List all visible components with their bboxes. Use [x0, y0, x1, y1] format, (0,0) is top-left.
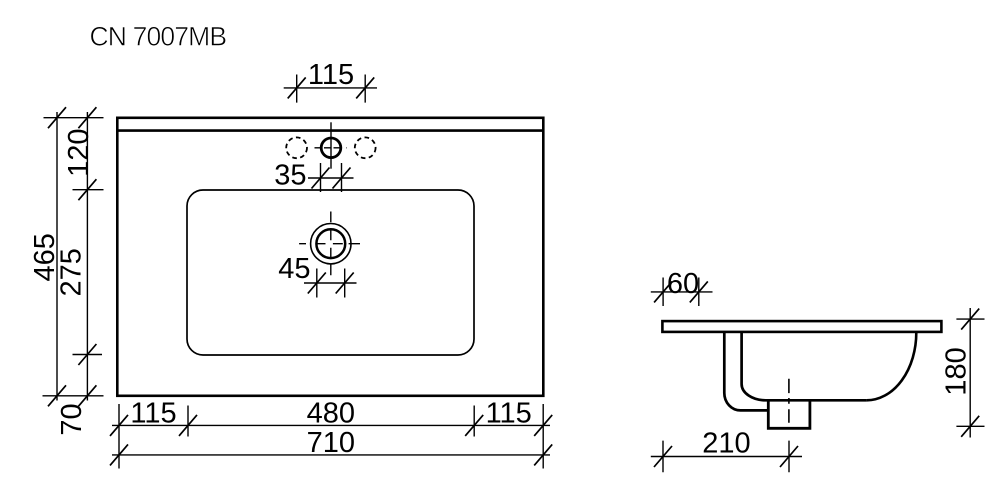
- svg-text:CN 7007MB: CN 7007MB: [90, 22, 227, 52]
- svg-text:115: 115: [130, 398, 176, 430]
- svg-text:60: 60: [667, 268, 699, 300]
- svg-text:45: 45: [278, 253, 310, 285]
- svg-text:115: 115: [308, 59, 354, 91]
- svg-text:115: 115: [486, 398, 532, 430]
- svg-text:70: 70: [56, 403, 88, 435]
- svg-text:210: 210: [702, 428, 750, 460]
- svg-text:480: 480: [307, 398, 355, 430]
- svg-text:180: 180: [941, 347, 973, 395]
- svg-text:35: 35: [274, 160, 306, 192]
- svg-text:710: 710: [307, 427, 355, 459]
- svg-text:120: 120: [63, 129, 95, 177]
- svg-text:275: 275: [56, 248, 88, 296]
